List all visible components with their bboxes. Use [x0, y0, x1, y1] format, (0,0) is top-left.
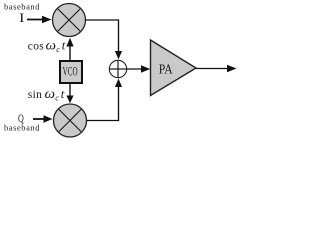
amplifier PA	[151, 40, 197, 96]
wire VCO to bottom mixer (arrow down)	[66, 84, 73, 103]
label sin wct	[28, 87, 65, 103]
svg-text:t: t	[62, 39, 66, 53]
svg-text:ω: ω	[46, 39, 57, 54]
svg-text:c: c	[55, 93, 59, 103]
svg-text:PA: PA	[159, 63, 174, 78]
mixer M2 (bottom multiplier)	[54, 104, 87, 137]
svg-text:baseband: baseband	[4, 123, 40, 133]
wire top mixer to summer	[86, 20, 123, 59]
svg-text:ω: ω	[45, 87, 56, 102]
wire PA output arrow	[196, 65, 237, 73]
svg-text:VCO: VCO	[63, 65, 78, 79]
wire VCO to top mixer (arrow up)	[66, 38, 73, 61]
svg-text:c: c	[56, 44, 60, 54]
label cos wct	[28, 39, 66, 55]
svg-text:cos: cos	[28, 41, 44, 53]
wire Q input arrow	[33, 115, 53, 123]
svg-text:sin: sin	[28, 89, 42, 101]
oscillator VCO	[60, 61, 82, 83]
mixer M1 (top multiplier)	[53, 4, 86, 37]
wire summer to PA	[127, 65, 151, 73]
wire bottom mixer to summer	[87, 79, 123, 121]
summer S1	[109, 60, 126, 77]
svg-text:I: I	[19, 11, 24, 25]
svg-text:t: t	[61, 87, 65, 101]
wire I input arrow	[27, 16, 52, 24]
